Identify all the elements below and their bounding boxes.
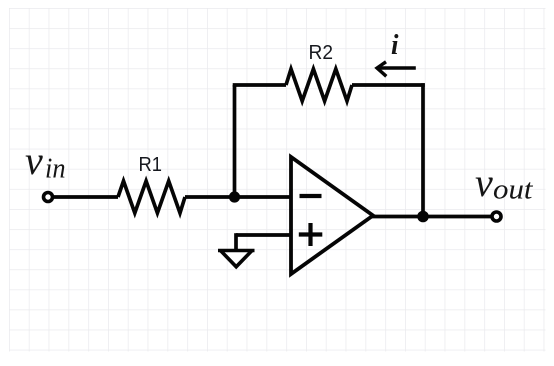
svg-text:v: v	[25, 138, 43, 183]
label vin	[25, 138, 66, 185]
svg-text:v: v	[475, 160, 493, 205]
wire feedback top left	[233, 83, 286, 87]
wire output	[371, 215, 492, 219]
svg-text:in: in	[45, 154, 66, 185]
wire non-inverting input	[236, 233, 290, 237]
current arrow i	[377, 62, 416, 77]
wire feedback top right	[352, 83, 425, 87]
resistor R1	[118, 181, 185, 213]
resistor R2	[286, 69, 352, 101]
svg-text:R2: R2	[309, 41, 334, 64]
wire R1 to op-amp inverting input	[185, 195, 290, 199]
svg-text:R1: R1	[139, 153, 163, 176]
svg-text:out: out	[493, 174, 533, 206]
op-amp minus sign	[300, 194, 322, 198]
wire input	[53, 195, 119, 199]
op-amp plus sign	[299, 223, 323, 246]
wire feedback right vertical	[421, 83, 425, 216]
ground	[218, 251, 255, 267]
wire feedback left vertical	[233, 85, 237, 197]
terminal vin	[44, 193, 53, 202]
node A junction dot	[229, 191, 240, 202]
terminal vout	[492, 212, 501, 221]
wire ground stub	[234, 233, 238, 250]
svg-text:i: i	[391, 29, 399, 61]
op-amp U1	[291, 157, 373, 274]
node B output junction dot	[417, 211, 429, 223]
label vout	[475, 160, 533, 206]
